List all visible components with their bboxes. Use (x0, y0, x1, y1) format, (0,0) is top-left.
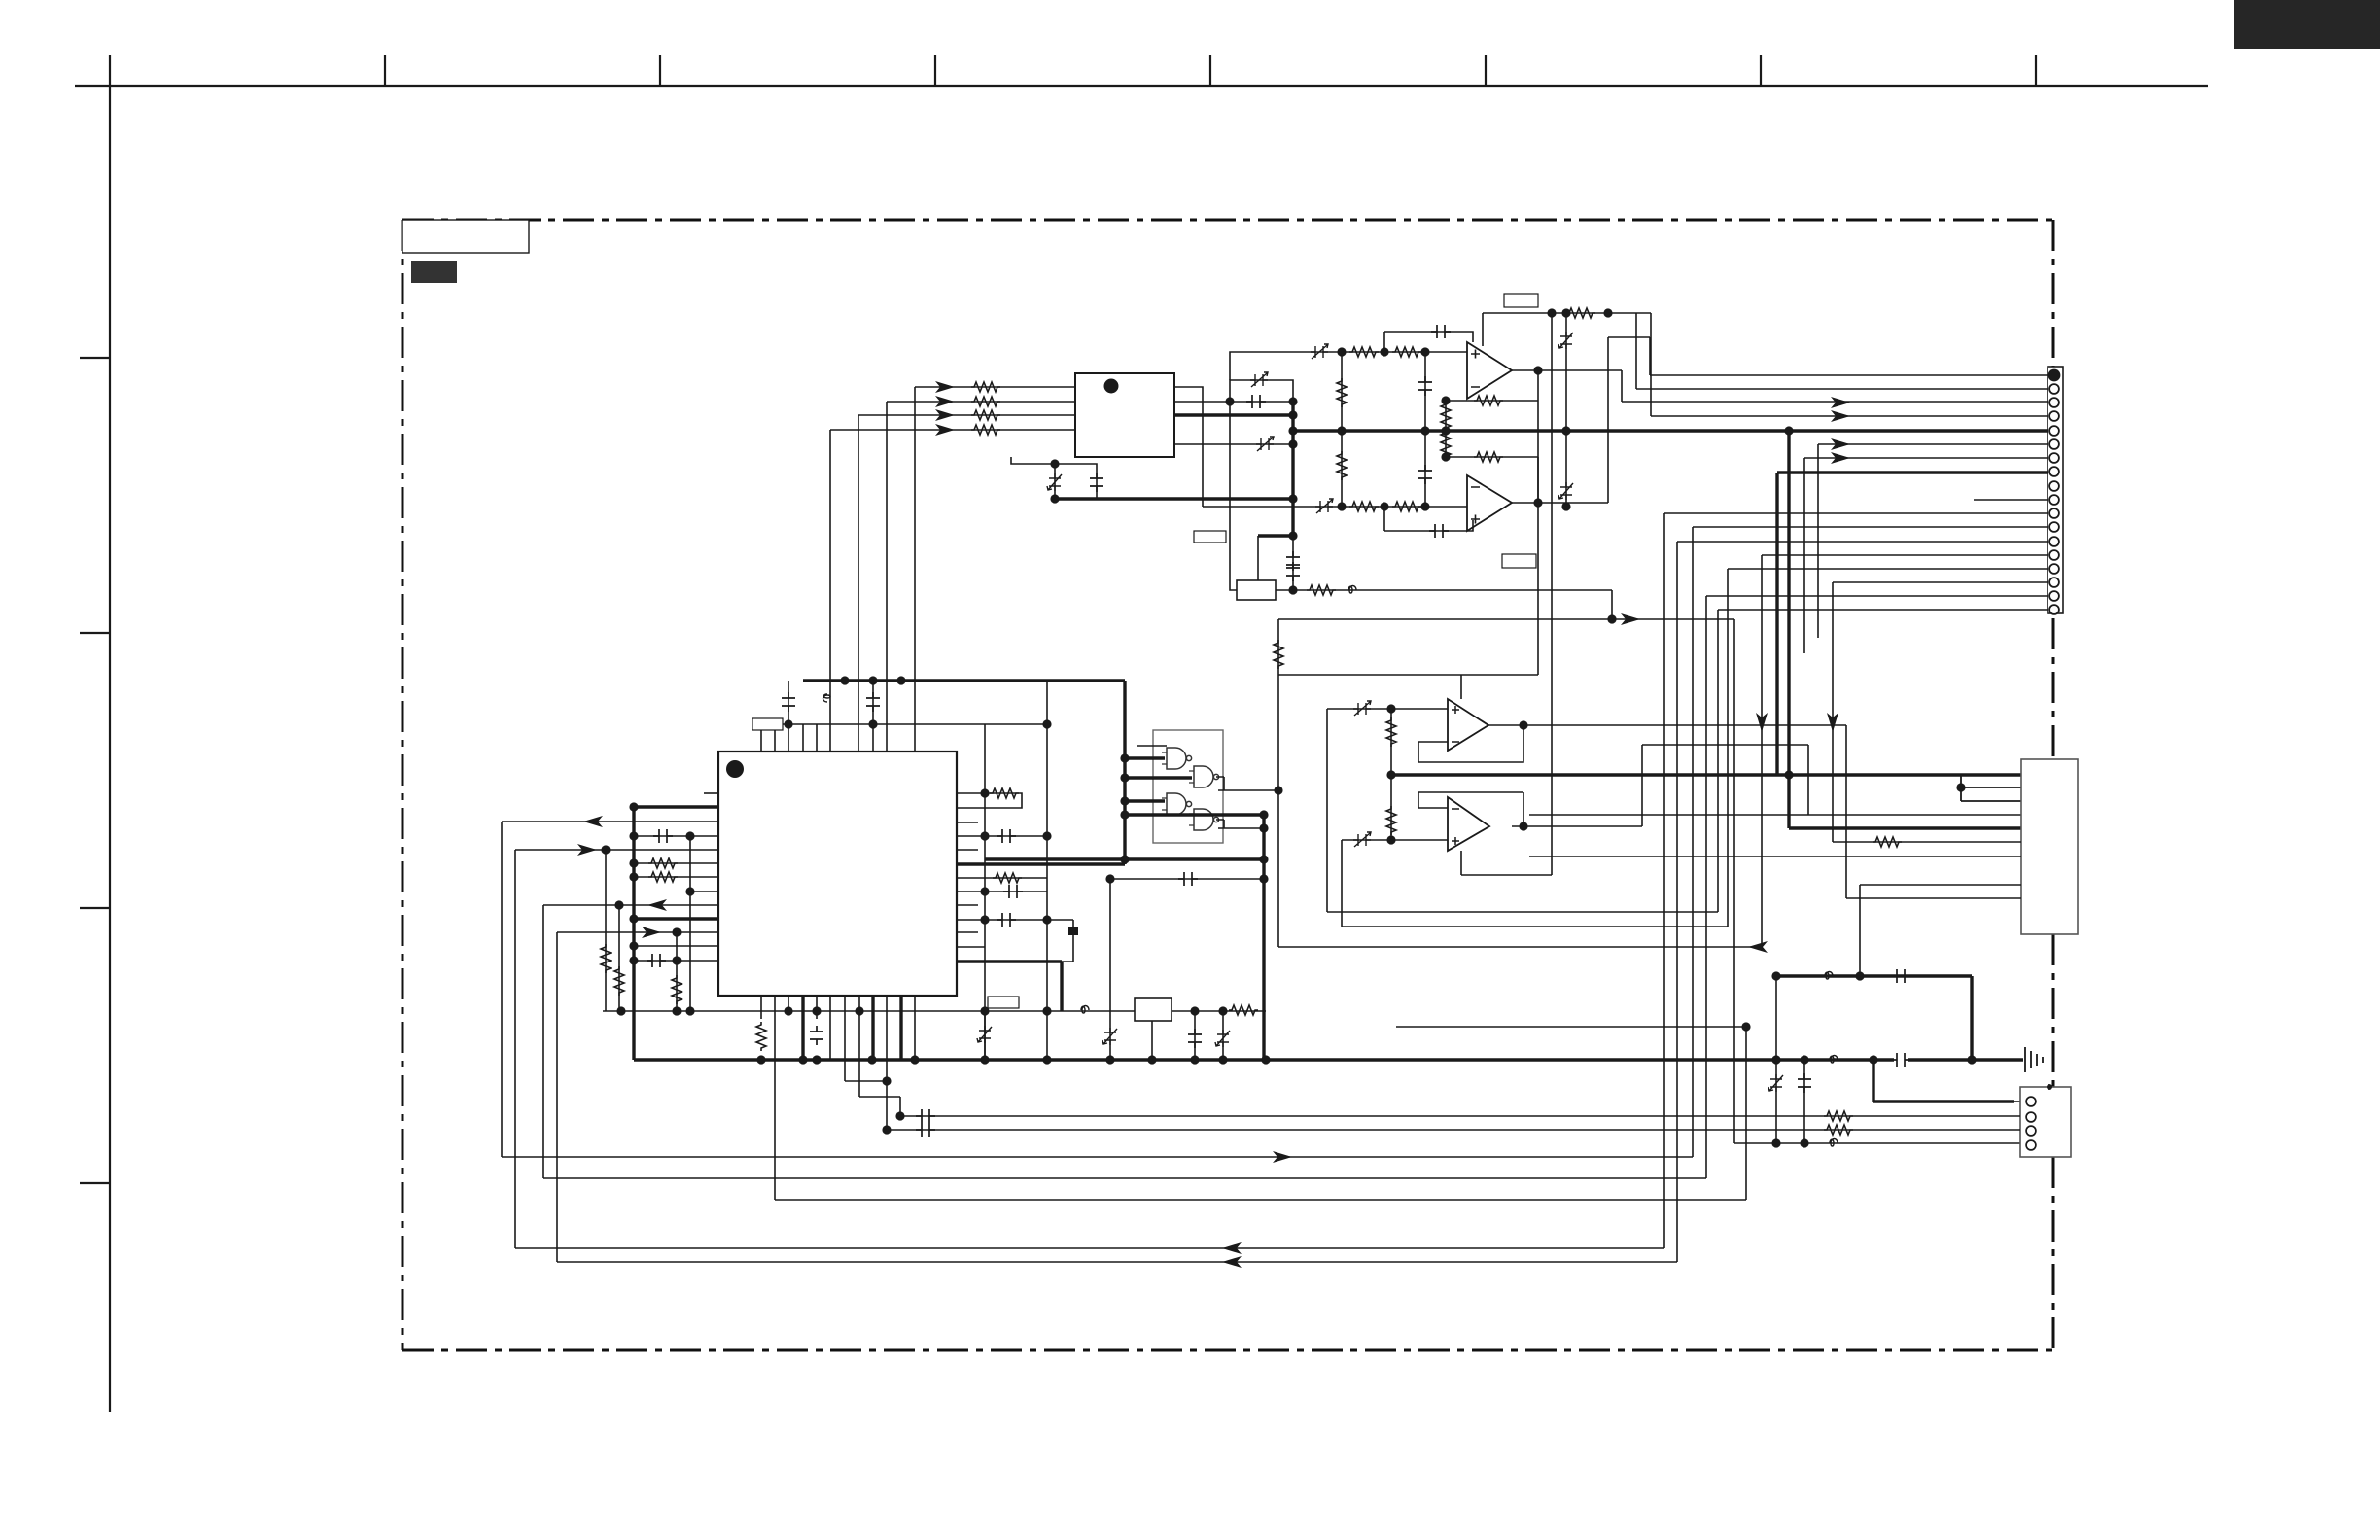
op-amp U13B (1448, 797, 1489, 851)
wire thick nand row y884 (985, 857, 1264, 860)
wire op2 fb res row y470 (1446, 457, 1538, 503)
wire op1 top loop y322 (1483, 313, 1651, 346)
wire U13B plus row y864 (1342, 840, 1448, 927)
capacitor C x1466 b (1418, 465, 1432, 484)
resistor R op1row b (1392, 347, 1421, 357)
capacitor C y917 (1003, 885, 1023, 898)
wire op1 fb cap row (1384, 332, 1473, 352)
bead L y1039 (1081, 1006, 1089, 1014)
wire stub y846 (957, 822, 978, 823)
wire nand g4 out y852 (1216, 820, 1264, 828)
resistor R op1 fb (1474, 396, 1503, 405)
ground GND main (2025, 1047, 2043, 1072)
trimmer CT x1611 a (1558, 332, 1573, 349)
wire thick row y945 (634, 917, 718, 920)
wire U11 bottom pins (761, 996, 915, 1200)
wire return y1234 (775, 1199, 1746, 1201)
wire pin386 (1608, 337, 2047, 375)
resistor R y1162 (1824, 1125, 1853, 1135)
trimmer CT x1142 (1102, 1028, 1117, 1045)
trimmer CT x1013 (977, 1026, 992, 1043)
wire pin413 (1622, 370, 2047, 402)
wire series caps below node (1292, 536, 1294, 590)
wire pin528 staircase (1664, 513, 2047, 1248)
wire left arrow row y845 (502, 822, 718, 1157)
wire thick mid bus y792 (1391, 773, 1961, 776)
wire trim col x1142 (1109, 879, 1111, 1060)
wire jog y1112 (845, 1080, 887, 1082)
connector CN12 (2021, 759, 2078, 934)
resistor R y1039 (1229, 1005, 1258, 1015)
wire thick row y989 (957, 962, 1062, 1011)
wire trim col x1258 (1222, 1011, 1224, 1060)
wire vertical to U21 in2 (886, 402, 888, 752)
wire row y917 (690, 836, 718, 1011)
wire thick nand row y838 (1125, 813, 1264, 816)
op-amp U22B (1467, 475, 1512, 531)
wire op2 fb cap row (1384, 507, 1473, 531)
capacitor C y1162 (916, 1123, 935, 1137)
wire thick nand row y780 (1125, 756, 1165, 759)
gate U12A (1162, 748, 1192, 769)
resistor R x1315 (1274, 640, 1283, 669)
title box (402, 220, 529, 253)
wire vertical to U21 in3 (857, 415, 859, 752)
wire stub y931r (957, 904, 978, 906)
wire long row y1148 (900, 1115, 2020, 1117)
resistor R x1380 a (1337, 378, 1347, 407)
wire arrow-out row y931 (543, 905, 718, 1178)
wire row y938 (1327, 911, 1718, 913)
wire cap row y988 (634, 960, 718, 962)
capacitor C vref (1090, 472, 1103, 492)
wire trimmer loop above cap (1230, 380, 1293, 402)
wire thick pin x927 (899, 996, 902, 1060)
wire long row y1162 (887, 1129, 2020, 1131)
resistor R col a (1441, 402, 1451, 431)
wire pin542 staircase (1693, 527, 2047, 1157)
wire jog y1128 (859, 1097, 900, 1116)
wire U13B feedback (1418, 792, 1523, 826)
wire pin471 (1804, 458, 2047, 653)
wire row y953 (1342, 926, 1728, 927)
wire thick pin x826 (801, 996, 804, 1060)
trimmer CT op1row (1311, 344, 1328, 359)
capacitor C op2 fb (1429, 524, 1449, 538)
arrows left side (583, 816, 603, 827)
capacitor C x1229 (1188, 1029, 1202, 1048)
wire return y1212 (543, 1177, 1706, 1179)
wire pin428 (1651, 313, 2047, 416)
wire thick gnd bus y1090 (634, 1058, 2023, 1061)
resistor R x637 (614, 966, 624, 996)
wire bias column x1431 (1390, 709, 1392, 840)
wire thick row y830 (634, 805, 718, 808)
wire pin514 stub (1974, 499, 2047, 501)
wire xtal left leg (1230, 402, 1237, 590)
wire pin557 staircase (1677, 542, 2047, 1262)
capacitor C x840 (810, 1026, 823, 1045)
wire thick node column x1330 (1291, 402, 1294, 536)
bead L pin4 (1830, 1139, 1837, 1147)
resistor R x623 (601, 944, 611, 973)
wire U13A feedback (1418, 725, 1523, 762)
bead L supply (823, 694, 831, 702)
wire op2 output (1512, 337, 1608, 503)
dots bottom (784, 1006, 792, 1015)
U11 left side (502, 793, 718, 1262)
wire U13A plus row y729 (1327, 709, 1448, 912)
wire U13B output (1523, 745, 1808, 826)
arrows mid (1748, 941, 1767, 953)
wire pin599 via resistor (1833, 582, 2047, 842)
wire stub y959r (957, 931, 978, 933)
trimmer CT op2row (1315, 499, 1333, 513)
wire arrow return y974 (1278, 946, 1762, 948)
wire trimmer row y457 (1174, 443, 1293, 445)
wire fb res pins y816 y831 (957, 793, 1022, 808)
label box supply (752, 718, 783, 730)
capacitor C y1004 (1891, 969, 1910, 983)
wire cap row y860r (957, 835, 1047, 837)
wire nand in y767 (1137, 745, 1167, 747)
resistor R y888 (648, 858, 678, 868)
wire nand cap row y904 (1110, 878, 1264, 880)
wire res column x696 (676, 932, 678, 1011)
wire arrow-in row y959 (557, 932, 718, 1262)
wire y694 row (1278, 401, 1538, 699)
crystal X1 (1237, 580, 1276, 600)
ic U11 (718, 752, 957, 996)
wire stub y874r (957, 849, 978, 851)
resistor R input1 (971, 382, 1000, 392)
dots left side (629, 831, 638, 840)
wire thick corner into xtal (1258, 534, 1293, 537)
label U22B (1502, 554, 1536, 568)
wire pin585 staircase (1728, 569, 2047, 927)
wire xtal top leg (1257, 536, 1259, 580)
op-amp U13A (1448, 699, 1488, 751)
wire pin881 (1529, 856, 2021, 857)
wire right rail x1077 (1046, 681, 1048, 1060)
wire return y1284 (515, 1247, 1664, 1249)
resistor R col b (1441, 430, 1451, 459)
wire U13A output (1523, 725, 1846, 898)
wire box col x1185 (1151, 1021, 1153, 1060)
wire res column x623 (605, 850, 607, 1011)
resistor R top loop (1566, 308, 1595, 318)
wire res row y903 (957, 877, 1047, 879)
wire pin457 (1818, 444, 2047, 638)
wire op2 plus input row y521 (1203, 506, 1467, 507)
wire U21 out1 to op2 input (1174, 387, 1203, 507)
wire op1 fb res row y412 (1446, 370, 1538, 457)
connector CN13 (2020, 1087, 2071, 1157)
resistor R input3 (971, 410, 1000, 420)
wire nand col x1315 (1277, 619, 1279, 947)
wire cap row y860 (634, 835, 718, 837)
trimmer CT x1611 b (1558, 482, 1573, 500)
capacitor C series pair (1286, 551, 1300, 571)
resistor R op2 fb (1474, 452, 1503, 462)
dash-dot board frame (402, 220, 2053, 1350)
gate U12B (1189, 766, 1219, 787)
capacitor C polar x1104 (1068, 927, 1078, 935)
wire supply row y1039 (603, 1010, 1266, 1012)
wire thick cnb pin1 (1873, 1060, 2014, 1102)
capacitor C y988 (647, 954, 666, 967)
capacitor C y946 (997, 913, 1016, 927)
border frame lines (75, 55, 2208, 1412)
wire thick left bus x652 (632, 807, 635, 1060)
wire supply row y745 (783, 723, 1047, 725)
resistor R y903 (993, 873, 1022, 883)
wire thick analog bus y443 (1294, 429, 2047, 432)
resistor R input4 (971, 425, 1000, 435)
wire pin571 staircase (1762, 555, 2047, 947)
wire row y1056 (1396, 1027, 1746, 1200)
capacitor C supply a (782, 692, 795, 712)
resistor R bias a (1386, 717, 1396, 747)
trimmer CT x1258 (1215, 1030, 1230, 1047)
wire thick nand row y800 (1125, 776, 1192, 779)
bead L gnd bus (1830, 1056, 1837, 1064)
wire return y1298 (557, 1261, 1677, 1263)
wire pin866 res (1833, 841, 2021, 843)
arrows return lines (1273, 1151, 1292, 1163)
wire cap row y946 (957, 920, 1073, 962)
wire row y917r (957, 891, 1047, 892)
wire nand g2 out y813 (1216, 777, 1278, 790)
bead L clock (1348, 586, 1356, 594)
wire top pin stubs (761, 724, 873, 752)
trimmer CT x1827 (1768, 1074, 1783, 1092)
wire xtal right leg (1276, 589, 1293, 591)
wire cap column x1856 (1803, 1060, 1805, 1143)
capacitor C x1856 (1798, 1073, 1811, 1093)
dots lower right (1771, 971, 1780, 980)
resistor R x1380 b (1337, 451, 1347, 480)
wire thick row y1004 (1776, 976, 1972, 1060)
wire trim column x1827 (1775, 976, 1777, 1143)
wire thick row y427 (1174, 413, 1293, 416)
wire thick bus into CN12 pin795 (1961, 773, 2021, 776)
node dots filter (1225, 397, 1234, 405)
dots right side (980, 788, 989, 797)
wire vertical to U21 in4 (829, 430, 831, 752)
resistor R x783 (756, 1022, 766, 1051)
arrows to CN18 (1831, 397, 1850, 408)
resistor R y816 (990, 788, 1019, 798)
connector CN18 (2047, 367, 2063, 613)
wire pin627 staircase (1718, 610, 2047, 912)
wire cnb pin4 row y1176 (1734, 619, 2020, 1143)
wire clock arrow row y637 (1278, 618, 1734, 620)
resistor R bias b (1386, 806, 1396, 835)
wire thick nand col x1300 (1262, 815, 1265, 1060)
wire thick row y889 (957, 862, 1125, 865)
wire trim col x1013b (984, 1011, 986, 1060)
trimmer CT row457 (1256, 437, 1274, 451)
capacitor C cap-row (1246, 395, 1266, 408)
trimmer CT loop (1250, 372, 1268, 387)
wire thick supply row y700 (803, 679, 1125, 682)
wire arrow-in row y874 (515, 850, 718, 1248)
resistor R op2row b (1392, 502, 1421, 511)
wire cap legs y722 (788, 681, 873, 724)
gate U12C (1162, 793, 1192, 815)
capacitor C x1466 a (1418, 376, 1432, 396)
dots nand (1120, 753, 1129, 762)
resistor R op1row a (1349, 347, 1379, 357)
wire vertical to U21 in1 (914, 387, 916, 752)
capacitor C gnd bus series (1891, 1053, 1910, 1067)
resistor R pin866 (1872, 837, 1902, 847)
wire clock out row y607 (1293, 590, 1612, 619)
ic U21 (1075, 373, 1174, 457)
label box near xtal (1194, 531, 1226, 542)
wire res column x637 (618, 905, 620, 1011)
label box y1039 (988, 997, 1019, 1008)
resistor R op2row a (1349, 502, 1379, 511)
wire bias column x1611 (1565, 313, 1567, 507)
wire thick pin x898 (871, 996, 874, 1060)
wire right column x1013 (984, 724, 986, 1060)
wire res row y902 (634, 876, 718, 878)
trimmer CT vref (1047, 473, 1062, 491)
wire op1 plus input row y362 (1230, 352, 1467, 380)
resistor R y902 (648, 872, 678, 882)
wire U21 input 3 (858, 414, 1075, 416)
wire thick nand feed x1157 (1123, 681, 1126, 864)
wire return y1190 (502, 1156, 1693, 1158)
capacitor C op1 fb (1431, 325, 1451, 338)
bead L y1004 (1825, 972, 1833, 980)
capacitor C supply b (866, 692, 880, 712)
resistor R y1148 (1824, 1111, 1853, 1121)
U11 right side (957, 681, 1073, 1060)
label U22A (1504, 294, 1538, 307)
capacitor C y860r (997, 829, 1016, 843)
op-amp U22A (1467, 342, 1512, 399)
wire cap row y413 (1174, 401, 1293, 402)
wire row y973 (634, 945, 718, 947)
wire pin400 (1636, 313, 2047, 389)
node dots op block (1547, 308, 1556, 317)
wire thick bus drop x1840 (1789, 431, 2021, 828)
capacitor C y1148 (916, 1109, 935, 1123)
resistor R input2 (971, 397, 1000, 406)
wire left stub y816 (704, 792, 718, 794)
wire U13B bottom y900 (1461, 851, 1552, 875)
box REG y1039 (1135, 998, 1172, 1021)
wire long fb column x1596 (1551, 313, 1553, 875)
wire thick row y513 (1055, 497, 1293, 500)
gate U12D (1189, 809, 1219, 830)
wire res row y888 (634, 862, 718, 864)
wire bracket into CN12 (1961, 775, 2021, 801)
resistor R clock (1307, 585, 1336, 595)
wire U21 input 4 (830, 429, 1075, 431)
wire cap col x1229 (1194, 1011, 1196, 1060)
trimmer CT U13B (1353, 832, 1371, 847)
wire pin910 thick drop (1860, 885, 2021, 976)
ic U12 quad nand (1153, 730, 1223, 843)
page number block (2234, 0, 2380, 49)
wire pin924 (1846, 897, 2021, 899)
wire mid cap column x1466 (1424, 352, 1426, 507)
dots mid opamps (1386, 704, 1395, 713)
wire res column x1380 (1341, 352, 1343, 507)
wire thick nand row y824 (1125, 799, 1165, 802)
wire pin613 staircase (1706, 596, 2047, 1178)
wire U21 input 2 (887, 401, 1075, 402)
wire thick pin486 (1777, 472, 2047, 775)
wire op1 output (1512, 369, 1622, 371)
resistor R x696 (672, 975, 682, 1004)
trimmer CT U13A (1353, 701, 1371, 716)
U21 bottom RC network (1011, 457, 1097, 499)
wire cnb pin1 tail (2014, 1101, 2020, 1102)
capacitor C nand (1178, 872, 1198, 886)
wire U21 input 1 (915, 386, 1075, 388)
wire vref node (1011, 457, 1097, 499)
board name label (411, 261, 457, 283)
capacitor C y860 (653, 829, 673, 843)
U11 top pins (761, 387, 1047, 752)
arrows on U21 inputs (935, 381, 955, 393)
wire into CN12 y838 (1529, 745, 2021, 815)
wire row y974r (957, 946, 985, 948)
